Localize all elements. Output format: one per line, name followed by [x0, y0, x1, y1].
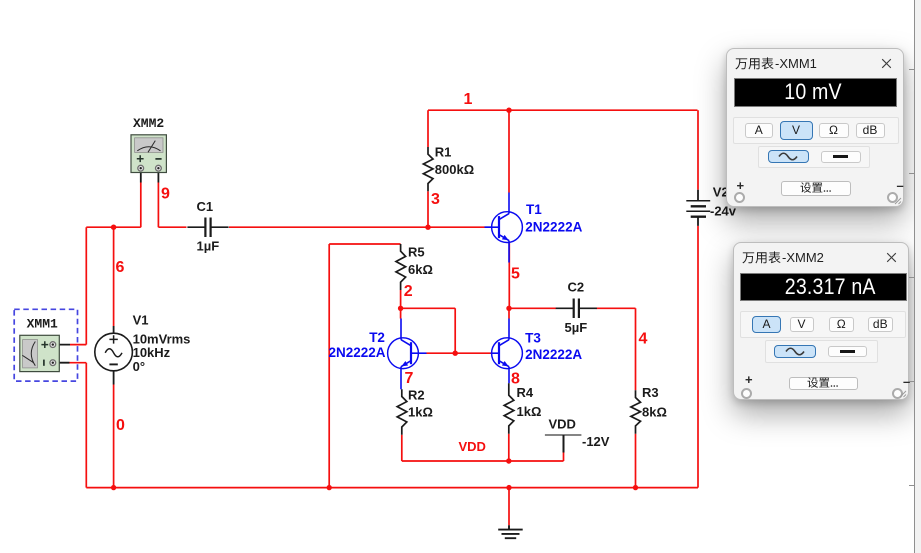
svg-text:5: 5	[511, 266, 520, 283]
svg-text:VDD: VDD	[549, 416, 576, 431]
svg-text:2N2222A: 2N2222A	[525, 220, 582, 235]
svg-text:1: 1	[464, 91, 473, 108]
svg-text:3: 3	[431, 191, 440, 208]
svg-text:R5: R5	[408, 245, 425, 260]
svg-text:T1: T1	[526, 202, 542, 217]
svg-text:T3: T3	[525, 330, 541, 345]
svg-text:C2: C2	[568, 280, 585, 295]
svg-text:8kΩ: 8kΩ	[642, 405, 667, 420]
svg-text:2: 2	[404, 283, 413, 300]
svg-text:2N2222A: 2N2222A	[525, 347, 582, 362]
svg-text:9: 9	[161, 185, 170, 202]
svg-text:T2: T2	[369, 330, 385, 345]
svg-text:V1: V1	[133, 312, 149, 327]
svg-text:800kΩ: 800kΩ	[435, 162, 474, 177]
svg-text:4: 4	[639, 330, 648, 347]
svg-text:7: 7	[405, 370, 414, 387]
svg-text:R1: R1	[435, 145, 452, 160]
svg-text:XMM2: XMM2	[133, 116, 164, 131]
svg-text:1kΩ: 1kΩ	[408, 405, 433, 420]
svg-text:6kΩ: 6kΩ	[408, 262, 433, 277]
svg-text:R3: R3	[642, 385, 659, 400]
svg-text:6: 6	[116, 259, 125, 276]
svg-text:5µF: 5µF	[565, 320, 588, 335]
svg-text:-12V: -12V	[582, 434, 610, 449]
svg-text:1µF: 1µF	[197, 238, 220, 253]
svg-text:VDD: VDD	[459, 439, 486, 454]
svg-text:R2: R2	[408, 387, 425, 402]
svg-text:R4: R4	[517, 385, 534, 400]
svg-text:C1: C1	[197, 199, 214, 214]
svg-text:2N2222A: 2N2222A	[329, 345, 386, 360]
svg-text:0°: 0°	[133, 359, 145, 374]
svg-text:1kΩ: 1kΩ	[517, 404, 542, 419]
svg-text:0: 0	[116, 417, 125, 434]
svg-text:XMM1: XMM1	[27, 317, 58, 332]
